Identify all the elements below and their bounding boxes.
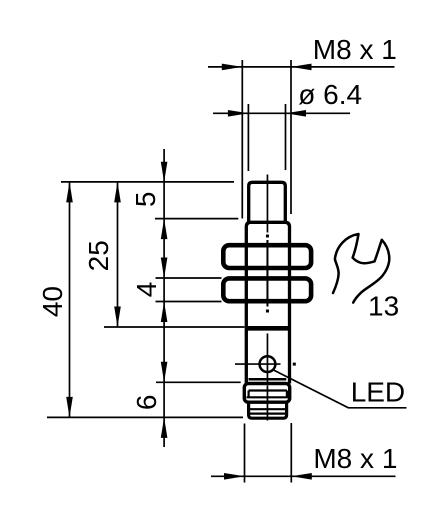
center axis segment through LED [266, 334, 268, 384]
extension line ø6.4 right [285, 104, 287, 170]
arrow 6 bottom [161, 417, 168, 438]
svg-text:25: 25 [83, 240, 114, 271]
hex nut N1 [223, 245, 311, 268]
svg-text:LED: LED [351, 376, 405, 407]
dimension 25 line [117, 182, 119, 327]
LED window circle [260, 356, 276, 372]
center axis dot lower [266, 310, 269, 313]
dimension 40 line [69, 182, 71, 418]
arrow 40 bottom [66, 397, 73, 418]
extension line 4 bottom [156, 301, 222, 303]
arrow 5 top [161, 162, 168, 183]
svg-text:13: 13 [368, 291, 399, 322]
coupling groove top line [249, 389, 287, 391]
arrow 4 top [161, 258, 168, 279]
housing seam line [249, 378, 287, 381]
dimension M8x1 top line [208, 66, 395, 68]
connector thread line 2 [249, 413, 287, 415]
center axis segment through connector [266, 386, 268, 421]
svg-text:M8 x 1: M8 x 1 [313, 443, 397, 474]
center axis dot upper [266, 235, 269, 238]
arrow M8 top right [291, 64, 312, 71]
arrow M8 top left [222, 64, 243, 71]
extension line M8 top right [290, 60, 292, 214]
dimension column 5/4/6 line [163, 149, 165, 447]
extension line M8 bottom left [244, 424, 246, 483]
arrow M8 bottom right [291, 473, 312, 480]
extension line bottom (y=417) [47, 416, 243, 418]
extension line M8 top left [241, 60, 243, 219]
arrowheads [66, 64, 312, 480]
svg-text:6: 6 [131, 395, 162, 411]
sensor barrel M8 body [246, 222, 289, 383]
connector coupling ring [244, 384, 289, 403]
extension line 6 top [156, 381, 241, 383]
connector thread section [249, 402, 287, 418]
arrow ø6.4 left [228, 110, 249, 117]
LED crosshair dot right [293, 363, 296, 366]
arrow ø6.4 right [286, 110, 307, 117]
svg-text:M8 x 1: M8 x 1 [313, 34, 397, 65]
extension line ø6.4 left [247, 104, 249, 171]
extension line top (y=182) [61, 181, 234, 183]
extension line 25 bottom [104, 326, 245, 328]
dimension ø6.4 line [213, 112, 350, 114]
svg-text:40: 40 [37, 286, 68, 317]
arrow 5 bottom [161, 219, 168, 240]
LED leader line [274, 370, 407, 408]
coupling groove left edge [248, 391, 250, 398]
connector thread line 1 [249, 408, 287, 410]
arrow 6 top [161, 362, 168, 383]
thread end band [246, 326, 289, 331]
svg-text:ø 6.4: ø 6.4 [298, 79, 362, 110]
arrow M8 bottom left [224, 473, 245, 480]
dimension M8x1 bottom line [211, 475, 396, 477]
svg-text:5: 5 [130, 192, 161, 208]
arrow 25 top [114, 182, 121, 203]
LED crosshair horizontal [235, 363, 281, 365]
arrow 25 bottom [114, 307, 121, 328]
extension line M8 bottom right [290, 423, 292, 483]
thread stub top [249, 182, 286, 221]
center axis segment through stub [266, 175, 268, 233]
arrow 40 top [66, 182, 73, 203]
arrow 4 bottom [161, 302, 168, 323]
coupling groove bottom line [247, 396, 289, 398]
svg-text:4: 4 [131, 282, 162, 298]
extension line 5 bottom [155, 218, 238, 220]
coupling groove right edge [286, 391, 288, 398]
extension line 4 top [156, 277, 222, 279]
wrench symbol 13 [333, 234, 389, 303]
hex nut N2 [223, 278, 311, 301]
center axis segment through nuts [266, 240, 268, 307]
